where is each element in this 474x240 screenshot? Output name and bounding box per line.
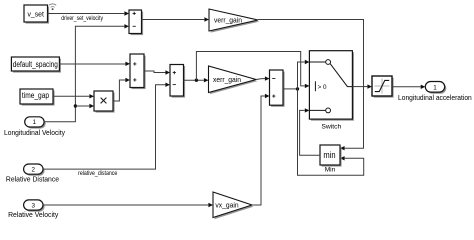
wire branch to Product input 2 (75, 105, 89, 107)
wire xerr_gain to Sum4 minus (256, 78, 265, 81)
wire verr_gain to Min input 1 (258, 20, 364, 149)
wire Product to Sum2 input 2 (113, 80, 125, 101)
svg-text:3: 3 (32, 203, 36, 210)
inport 2 (24, 164, 45, 176)
wire Min output to Switch input 3 (300, 110, 320, 155)
constant v_set (24, 5, 49, 24)
inport 1 (25, 117, 46, 129)
svg-text:Longitudinal Velocity: Longitudinal Velocity (4, 130, 66, 137)
junction dot (74, 104, 77, 107)
wire v_set to Sum1 (48, 13, 125, 15)
sum Sum4 (270, 70, 285, 107)
wire Sum4 branch up to Switch input 1 (298, 62, 305, 89)
svg-text:time_gap: time_gap (22, 91, 50, 100)
sum Sum3 (170, 65, 185, 98)
wire Sum3 branch to Switch control (196, 52, 304, 86)
wire Saturation to outport (392, 86, 421, 88)
svg-text:1: 1 (32, 119, 36, 126)
junction dot (195, 79, 198, 82)
svg-text:1: 1 (433, 84, 437, 91)
outport 1 (425, 82, 446, 94)
svg-text:xerr_gain: xerr_gain (213, 75, 241, 84)
min block (flipped) (320, 145, 342, 167)
wire Sum3 to xerr_gain (184, 79, 204, 81)
junction dot (296, 87, 299, 90)
wire time_gap to Product (53, 95, 89, 97)
wire Sum4 output to junction (283, 88, 298, 90)
svg-text:min: min (323, 150, 335, 160)
gain verr_gain (209, 9, 260, 33)
switch control tick and threshold (314, 81, 316, 91)
wire inport3 to vx_gain (43, 204, 209, 206)
svg-text:vx_gain: vx_gain (215, 201, 238, 210)
switch input 1 port (309, 61, 325, 63)
gain xerr_gain (209, 66, 258, 94)
svg-text:Min: Min (325, 167, 336, 174)
wire Switch to Saturation (352, 86, 367, 88)
saturation block (372, 76, 394, 98)
gain vx_gain (213, 192, 254, 219)
wire Sum1 to verr_gain (142, 19, 205, 21)
inport 3 (24, 200, 45, 212)
wire Sum4 branch down to Min input 2 (298, 89, 364, 175)
product block (94, 91, 115, 113)
sum Sum2 (130, 54, 146, 89)
svg-text:> 0: > 0 (318, 84, 327, 91)
sum Sum1 (129, 10, 143, 35)
wire Sum2 to Sum3 (144, 71, 165, 73)
svg-text:Switch: Switch (321, 124, 341, 131)
switch arm (330, 64, 352, 87)
wire default_spacing to Sum2 (59, 63, 125, 65)
wire inport1 riser to Sum1 minus and Product (44, 26, 125, 121)
svg-text:Longitudinal acceleration: Longitudinal acceleration (398, 95, 472, 102)
svg-text:2: 2 (32, 167, 36, 174)
wire vx_gain to Sum4 plus (252, 96, 265, 205)
switch input 3 port (309, 109, 325, 111)
svg-text:verr_gain: verr_gain (214, 15, 242, 24)
switch block (309, 51, 354, 121)
svg-text:default_spacing: default_spacing (13, 60, 58, 69)
svg-text:driver_set_velocity: driver_set_velocity (61, 15, 103, 22)
svg-text:Relative Distance: Relative Distance (6, 177, 59, 184)
constant time_gap (20, 89, 55, 106)
svg-text:v_set: v_set (27, 9, 44, 18)
constant default_spacing (11, 57, 61, 73)
tunable parameter wireless icon (49, 4, 56, 10)
wire inport2 to Sum3 minus (43, 85, 166, 169)
svg-text:Relative Velocity: Relative Velocity (8, 212, 59, 219)
svg-text:relative_distance: relative_distance (78, 170, 117, 177)
